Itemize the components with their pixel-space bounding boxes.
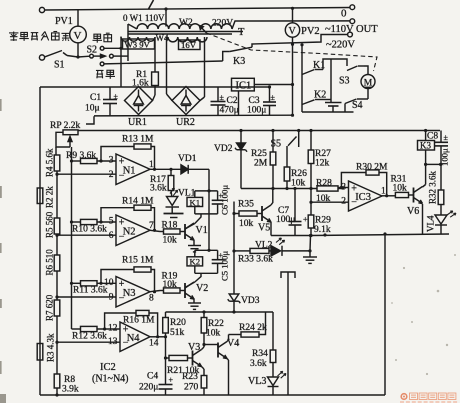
svg-text:C6 100μ: C6 100μ	[220, 185, 230, 215]
svg-text:R16 1M: R16 1M	[123, 316, 155, 326]
svg-text:220μ: 220μ	[139, 383, 158, 393]
wire N2 feedback up	[101, 208, 134, 222]
relay coil K3	[418, 129, 435, 164]
terminal 0 upper	[350, 5, 355, 10]
wire R20 down	[165, 333, 167, 385]
label RP 2.2k	[50, 121, 81, 131]
label R3 4.3k	[46, 333, 56, 362]
resistor R26	[284, 146, 290, 181]
svg-text:K2: K2	[314, 90, 326, 101]
ground V1	[188, 240, 201, 252]
svg-text:VD2: VD2	[214, 144, 233, 154]
resistor R19	[160, 288, 185, 293]
wire chain c	[56, 271, 58, 300]
terminal 110V out	[348, 32, 353, 37]
svg-text:PV2: PV2	[301, 26, 320, 37]
svg-text:~110V OUT: ~110V OUT	[325, 24, 378, 35]
svg-text:V1: V1	[196, 225, 208, 236]
svg-text:10k: 10k	[163, 236, 178, 246]
resistor R4	[54, 155, 60, 171]
wire N4 inverting	[55, 341, 120, 344]
wire W3 right riser	[154, 37, 156, 72]
zener VD2	[235, 129, 247, 189]
wire N2 out	[150, 230, 160, 231]
label W3 9V boxed	[123, 39, 155, 50]
svg-text:8: 8	[149, 294, 154, 304]
svg-text:1: 1	[381, 187, 386, 197]
svg-text:R33 3.6k: R33 3.6k	[238, 255, 273, 265]
wire bus to R12	[72, 328, 81, 330]
led VL1	[166, 188, 180, 214]
label V1	[196, 225, 208, 236]
svg-text:R22: R22	[208, 319, 224, 329]
svg-text:N3: N3	[123, 288, 136, 299]
wire R25 bottom	[271, 165, 274, 190]
label K2 contact	[314, 90, 326, 101]
switch S2 throw lower	[100, 62, 104, 66]
label S2	[87, 45, 98, 56]
capacitor C5	[212, 250, 224, 273]
wire x234 vertical	[232, 202, 235, 280]
label AC input voltage	[9, 32, 70, 41]
switch S2 throw upper	[100, 46, 122, 50]
resistor R14	[134, 205, 151, 210]
label C7 100u	[276, 206, 295, 225]
wire S3 branch	[331, 59, 347, 66]
svg-text:5: 5	[109, 216, 114, 226]
resistor R10	[81, 219, 98, 224]
resistor R3	[37, 344, 43, 361]
resistor R30	[366, 170, 379, 175]
wire R16 to out	[149, 313, 159, 338]
wire N3 feedback up	[101, 270, 134, 284]
resistor R24	[229, 312, 266, 337]
svg-text:~220V: ~220V	[326, 40, 355, 51]
capacitor C6	[212, 191, 224, 214]
svg-text:R25: R25	[251, 149, 267, 159]
scan mark top	[149, 0, 154, 9]
wire primary 0 end down	[128, 24, 137, 61]
svg-text:R7 620: R7 620	[45, 294, 55, 321]
capacitor C2	[211, 87, 226, 116]
svg-text:+: +	[169, 376, 174, 385]
wire IC1 right	[254, 83, 294, 86]
label S4	[352, 100, 363, 111]
wire top rail	[45, 8, 350, 11]
label V5	[258, 223, 270, 234]
wire DC plus rail	[40, 86, 232, 88]
input terminal upper	[39, 7, 44, 12]
wire direct line	[104, 61, 223, 64]
wire relay branch vertical	[300, 43, 303, 112]
svg-text:VL3: VL3	[248, 376, 266, 387]
svg-text:C3: C3	[249, 96, 260, 106]
label R9 3.6k	[66, 151, 96, 161]
wire relay bottom rail	[302, 111, 354, 113]
label R32 3.6k	[428, 170, 438, 204]
svg-text:R12 3.6k: R12 3.6k	[72, 332, 107, 342]
svg-text:C1: C1	[90, 93, 101, 103]
led VL4	[435, 211, 456, 234]
svg-text:10k: 10k	[239, 219, 254, 229]
label R24 2k	[239, 323, 267, 333]
label R26 10k	[291, 169, 307, 189]
label R15 1M	[122, 256, 154, 266]
svg-text:3.9k: 3.9k	[62, 385, 79, 395]
wire R15 to out	[151, 270, 156, 294]
svg-text:51k: 51k	[170, 328, 185, 338]
label V3	[188, 342, 200, 353]
label C4 220u	[139, 372, 158, 393]
potentiometer RP	[56, 116, 94, 155]
wire N1 inverting	[55, 173, 116, 176]
svg-text:K3: K3	[420, 141, 431, 151]
label K1 contact	[313, 60, 325, 71]
label N1-N4	[92, 374, 129, 385]
wire C3 top	[232, 86, 270, 88]
label 16V boxed	[179, 40, 201, 50]
svg-text:VD3: VD3	[241, 296, 260, 306]
wire W3 left riser	[120, 37, 122, 88]
svg-text:±: ±	[271, 93, 276, 102]
transistor V3	[193, 350, 202, 367]
svg-text:100μ: 100μ	[440, 148, 450, 166]
label VL3	[248, 376, 266, 387]
bridge rectifier UR2	[172, 87, 200, 115]
svg-text:S1: S1	[54, 60, 65, 71]
relay coil K1	[187, 197, 203, 207]
label R10 3.6k	[72, 225, 107, 235]
contact S4	[345, 99, 368, 112]
label R4 5.6k	[45, 148, 55, 177]
label ~220V	[326, 40, 355, 51]
resistor R23	[201, 376, 207, 389]
wire frame left	[39, 87, 41, 395]
wire K1 parallel top	[195, 191, 218, 198]
wire bus to R11	[70, 282, 81, 285]
capacitor C1	[103, 87, 119, 116]
svg-text:16V: 16V	[181, 40, 197, 50]
node 0 label	[341, 8, 347, 20]
wire R9 to N1	[97, 159, 116, 162]
wire chain f	[55, 388, 58, 397]
svg-text:V6: V6	[407, 206, 419, 217]
label W4	[156, 33, 169, 43]
svg-text:W3 9V: W3 9V	[125, 40, 151, 50]
svg-text:R5 560: R5 560	[45, 211, 55, 238]
svg-text:2: 2	[341, 196, 346, 206]
wire R30 to out	[379, 173, 388, 198]
wire bus to R9	[72, 160, 81, 162]
wire R32 riser	[440, 164, 442, 190]
wire IC1 ground stub	[238, 91, 240, 116]
wire N4 feedback up	[105, 313, 136, 329]
resistor R11	[81, 281, 98, 286]
resistor R16	[136, 310, 149, 315]
resistor R8	[54, 374, 60, 388]
resistor R20	[163, 312, 169, 333]
label R8 3.9k	[62, 375, 79, 395]
node S pole junction	[76, 55, 79, 58]
svg-text:3: 3	[109, 155, 114, 165]
ground VL1	[164, 214, 184, 218]
svg-text:V: V	[74, 30, 82, 42]
capacitor C3	[263, 85, 276, 115]
label wenya (regulated)	[93, 33, 112, 43]
label VD2	[214, 144, 233, 154]
svg-text:R18: R18	[162, 221, 178, 231]
svg-text:R24 2k: R24 2k	[239, 323, 267, 333]
wire sample bus	[70, 147, 73, 329]
wire V3 emitter down	[202, 367, 205, 376]
svg-text:UR1: UR1	[128, 117, 147, 128]
label R1	[132, 70, 149, 89]
svg-text:14: 14	[149, 339, 159, 349]
wire R34 down	[272, 363, 274, 378]
resistor R33	[234, 248, 269, 253]
svg-text:R9 3.6k: R9 3.6k	[66, 151, 96, 161]
wire R1 to UR1	[153, 86, 156, 101]
switch S5	[288, 129, 300, 147]
svg-text:UR2: UR2	[176, 117, 195, 128]
led VL2	[269, 238, 310, 256]
svg-text:V2: V2	[196, 283, 208, 294]
wire V2 collector	[185, 282, 195, 288]
wire 110V tap riser	[164, 7, 167, 26]
resistor R27	[308, 129, 314, 164]
wire DC minus rail	[94, 114, 294, 117]
resistor R32	[438, 190, 444, 205]
label PV2	[301, 26, 320, 37]
contact K1	[302, 59, 331, 103]
svg-text:0 W1 110V: 0 W1 110V	[123, 13, 165, 23]
svg-text:R15 1M: R15 1M	[122, 256, 154, 266]
wire R28 row	[241, 188, 317, 190]
label IC2	[100, 362, 116, 373]
switch S1	[39, 51, 78, 61]
label VL2	[255, 241, 273, 251]
wire chain d	[56, 316, 58, 374]
svg-text:12k: 12k	[315, 159, 330, 169]
op-amp N1	[109, 154, 154, 185]
svg-text:10k: 10k	[291, 179, 306, 189]
wire V3 to V4 base	[204, 345, 218, 348]
label VD3	[241, 296, 260, 306]
svg-text:100μ: 100μ	[276, 215, 295, 225]
label C5 100u	[220, 251, 230, 281]
transistor V4	[218, 342, 227, 359]
voltmeter PV2	[285, 7, 299, 46]
label R11 3.6k	[73, 286, 108, 296]
zener VD3	[228, 279, 241, 314]
svg-text:RP 2.2k: RP 2.2k	[50, 121, 81, 131]
resistor R31	[395, 192, 408, 197]
svg-text:3.6k: 3.6k	[150, 184, 167, 194]
svg-text:K3: K3	[233, 56, 245, 67]
svg-text:12: 12	[108, 323, 118, 333]
voltmeter PV1	[70, 9, 87, 57]
diode VD1	[181, 165, 188, 174]
label R13 1M	[122, 135, 154, 145]
wire W4 right riser	[200, 37, 205, 101]
wire R17 to VL1	[170, 191, 173, 197]
wire frame right segment	[383, 232, 386, 395]
op-amp N2	[109, 215, 154, 246]
wire control top rail	[78, 130, 440, 132]
svg-text:10k: 10k	[163, 280, 178, 290]
wire IC3 inv	[309, 201, 348, 204]
label C6 100u	[220, 185, 230, 215]
label R17 3.6k	[150, 175, 167, 194]
resistor R7	[54, 300, 60, 316]
svg-text:±: ±	[220, 93, 225, 102]
wire V5 emitter	[270, 222, 272, 236]
svg-text:VL4: VL4	[426, 215, 436, 232]
svg-text:R2 2k: R2 2k	[45, 186, 55, 208]
wire IC3 feedback	[341, 173, 366, 188]
wire R28 to IC3	[338, 188, 344, 190]
capacitor C8	[434, 131, 449, 165]
transistor V2	[185, 282, 194, 299]
label R18 10k	[162, 221, 178, 246]
wire chain b	[56, 234, 58, 255]
svg-text:10μ: 10μ	[85, 104, 100, 114]
label 0 W1 110V	[123, 13, 165, 23]
svg-text:7: 7	[149, 221, 154, 231]
label R6 510	[45, 249, 55, 276]
svg-text:VL2: VL2	[255, 241, 273, 251]
label VL4	[426, 215, 436, 232]
wire R23 down	[203, 388, 205, 395]
regulator IC1	[232, 78, 255, 91]
wire N2 inverting	[55, 234, 116, 237]
svg-text:S4: S4	[352, 100, 363, 111]
svg-text:+: +	[303, 215, 308, 224]
transformer secondary W3	[121, 37, 155, 41]
transistor V5	[262, 205, 271, 222]
label R14 1M	[122, 197, 154, 207]
label R30 2M	[356, 163, 388, 173]
resistor R2	[37, 188, 43, 204]
led VL3	[268, 371, 286, 395]
wire VD1 out	[188, 168, 209, 170]
contact S3	[347, 66, 368, 74]
label T	[238, 27, 245, 38]
label R23 270	[182, 372, 199, 393]
svg-text:V: V	[289, 26, 297, 37]
label VL1	[178, 189, 196, 199]
wire N3 out	[150, 291, 160, 292]
label C3	[247, 96, 266, 116]
label PV1	[55, 16, 73, 27]
svg-text:C5 100μ: C5 100μ	[220, 251, 230, 281]
wire chain a	[56, 171, 58, 218]
wire M bottom	[367, 89, 369, 100]
resistor R21	[164, 355, 193, 360]
wire W4 left riser	[167, 37, 173, 101]
svg-text:R30 2M: R30 2M	[356, 163, 388, 173]
label V2	[196, 283, 208, 294]
svg-text:N1: N1	[123, 165, 136, 176]
label V4	[227, 338, 239, 349]
label R31 10k	[391, 175, 408, 194]
svg-text:N4: N4	[127, 333, 141, 344]
svg-text:R8: R8	[64, 375, 75, 385]
wire PV2 stem down	[292, 44, 294, 115]
label R22 10k	[206, 319, 224, 339]
resistor R17	[168, 169, 174, 190]
label S3	[339, 76, 350, 87]
ground mid	[303, 249, 317, 263]
svg-text:470μ: 470μ	[220, 106, 239, 116]
label R5 560	[45, 211, 55, 238]
svg-text:R32 3.6k: R32 3.6k	[428, 170, 438, 204]
svg-text:C8: C8	[427, 132, 438, 142]
svg-text:PV1: PV1	[55, 16, 73, 27]
label V6	[407, 206, 419, 217]
resistor R18	[160, 229, 185, 234]
label R20 51k	[170, 318, 186, 338]
label R29 9.1k	[314, 216, 331, 236]
wire R31 to V6	[409, 194, 414, 196]
wire K2 parallel bottom	[195, 266, 218, 282]
svg-text:1: 1	[149, 160, 154, 170]
wire R14 to out	[151, 208, 156, 232]
svg-text:R20: R20	[170, 318, 186, 328]
svg-text:R10 3.6k: R10 3.6k	[72, 225, 107, 235]
svg-text:270: 270	[184, 383, 199, 393]
resistor R15	[134, 267, 151, 272]
resistor R22	[201, 310, 207, 333]
svg-text:R26: R26	[291, 169, 307, 179]
label R33 3.6k	[238, 255, 273, 265]
label R34 3.6k	[250, 349, 268, 369]
svg-text:R23: R23	[182, 372, 198, 382]
svg-text:R27: R27	[315, 149, 331, 159]
svg-text:(N1~N4): (N1~N4)	[92, 374, 129, 385]
resistor R5	[54, 218, 60, 234]
wire R29 bottom	[309, 228, 312, 237]
label C8	[427, 132, 438, 142]
wire mid vertical	[281, 272, 295, 395]
transistor V1	[185, 223, 194, 240]
wire mid rail y312	[166, 311, 274, 313]
label R2 2k	[45, 186, 55, 208]
svg-text:R34: R34	[252, 349, 268, 359]
svg-text:VD1: VD1	[178, 154, 197, 164]
wire V4 collector up	[227, 335, 229, 342]
svg-text:10k: 10k	[206, 329, 221, 339]
wire VL2 up to rail	[309, 234, 312, 251]
svg-text:10: 10	[104, 278, 114, 288]
label C2	[220, 96, 239, 116]
wire V1 collector	[185, 224, 195, 230]
svg-text:K1: K1	[313, 60, 325, 71]
wire N1 feedback up	[101, 147, 134, 162]
svg-text:S5: S5	[271, 139, 282, 150]
svg-text:±: ±	[114, 92, 119, 101]
svg-text:V3: V3	[188, 342, 200, 353]
svg-text:3.6k: 3.6k	[250, 359, 267, 369]
wire R11 to N3	[97, 282, 116, 285]
switch S2 pole row	[78, 54, 128, 58]
label R12 3.6k	[72, 332, 107, 342]
op-amp N4	[108, 322, 159, 352]
svg-text:R3 4.3k: R3 4.3k	[46, 333, 56, 362]
wire N3 inverting	[55, 295, 116, 298]
svg-text:R6 510: R6 510	[45, 249, 55, 276]
label VD1	[178, 154, 197, 164]
